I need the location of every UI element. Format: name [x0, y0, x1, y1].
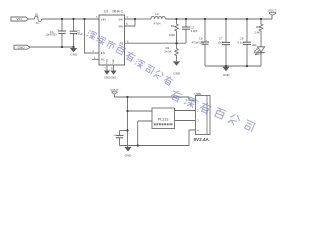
svg-text:GND: GND	[125, 154, 133, 158]
svg-text:R1: R1	[171, 24, 175, 28]
svg-text:LED: LED	[252, 44, 257, 47]
svg-text:GND: GND	[223, 73, 231, 77]
svg-text:2.4K: 2.4K	[254, 30, 260, 34]
svg-text:GND: GND	[173, 72, 181, 76]
svg-text:3.9pF: 3.9pF	[191, 29, 198, 33]
svg-text:GND: GND	[107, 59, 109, 64]
svg-text:R4: R4	[256, 25, 260, 29]
svg-text:U1: U1	[104, 10, 108, 14]
svg-text:F1: F1	[35, 12, 39, 16]
svg-text:EN: EN	[101, 51, 105, 55]
svg-text:GND: GND	[18, 45, 26, 49]
svg-text:SW: SW	[118, 25, 123, 29]
svg-text:24.9K: 24.9K	[165, 50, 172, 54]
svg-text:PL313: PL313	[158, 118, 168, 122]
svg-text:C6: C6	[199, 37, 203, 41]
svg-text:SW: SW	[118, 18, 123, 22]
svg-text:NC: NC	[101, 57, 105, 61]
svg-text:MH4 C: MH4 C	[113, 10, 124, 14]
svg-text:100K: 100K	[169, 33, 175, 37]
svg-text:R2: R2	[166, 46, 170, 50]
svg-text:C5: C5	[191, 25, 195, 29]
svg-text:LED1: LED1	[255, 52, 262, 56]
svg-text:GNDGND: GNDGND	[104, 76, 116, 80]
svg-text:4.7uF: 4.7uF	[76, 32, 83, 36]
svg-text:470uF/10V: 470uF/10V	[192, 40, 205, 44]
svg-text:GND: GND	[113, 59, 115, 64]
svg-text:VIN: VIN	[16, 17, 21, 21]
svg-text:L2: L2	[155, 12, 159, 16]
svg-text:USB1: USB1	[195, 92, 203, 96]
svg-text:C8: C8	[240, 37, 244, 41]
svg-text:C7: C7	[219, 37, 223, 41]
svg-text:0.1uF: 0.1uF	[238, 40, 245, 44]
svg-text:2A: 2A	[36, 21, 39, 25]
svg-text:47uH: 47uH	[154, 21, 161, 25]
svg-text:10uF: 10uF	[217, 40, 223, 44]
svg-text:FB: FB	[120, 42, 124, 46]
svg-text:10uF/25V: 10uF/25V	[46, 33, 58, 37]
svg-text:5V2.4A: 5V2.4A	[194, 137, 210, 142]
svg-text:GND: GND	[70, 53, 78, 57]
svg-text:VIN: VIN	[101, 18, 106, 22]
